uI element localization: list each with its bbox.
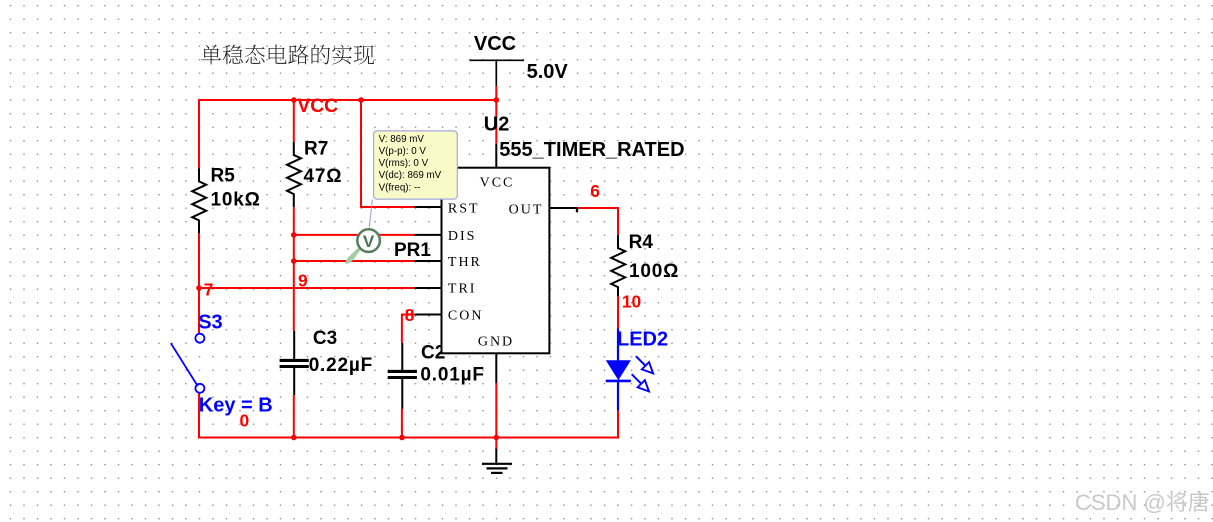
pin stub DIS [415,234,442,236]
svg-text:U2: U2 [484,113,510,135]
svg-text:8: 8 [405,305,415,325]
wire node 6 down to R4 [617,207,619,235]
wire RST branch horizontal to RST pin [361,206,415,208]
svg-text:VCC: VCC [474,33,516,55]
power symbol VCC 5.0V [470,33,524,100]
wire R7 top lead from bus [293,100,295,142]
wire bottom bus to ground symbol [495,437,497,450]
svg-text:V: 869 mV: V: 869 mV [379,134,425,145]
junction J4 at (293.8,234.9) [291,232,297,238]
wire node 7 down to switch S3 [198,287,200,334]
pin stub RST [415,206,442,208]
wire node 7 to TRI pin [199,287,415,289]
wire R5 bottom to node 7 [198,233,200,288]
svg-text:V: V [363,232,375,251]
junction J3 at (496.3,100) [494,97,500,103]
svg-text:THR: THR [448,255,482,270]
svg-text:CSDN @: CSDN @ [1075,490,1166,515]
wire RST branch vertical [360,100,362,208]
svg-text:7: 7 [204,280,214,300]
svg-text:DIS: DIS [448,229,477,244]
wire R5 top lead from bus [198,99,200,168]
svg-text:LED2: LED2 [617,329,668,351]
wire R4 bottom node 10 to LED2 [617,296,619,329]
svg-text:VCC: VCC [297,96,338,117]
svg-text:V(freq): --: V(freq): -- [379,182,421,193]
svg-text:0.01µF: 0.01µF [420,364,484,385]
wire switch S3 to bottom bus [198,393,200,439]
svg-text:10kΩ: 10kΩ [211,190,261,211]
wire C3 bottom to bottom bus [293,395,295,439]
junction J1 at (293.8,100) [291,97,297,103]
pin stub TRI [415,287,442,289]
svg-text:R7: R7 [304,138,328,159]
LED LED2 cathode lead [617,381,619,411]
svg-text:VCC: VCC [480,176,515,191]
wire node 8 down to C2 [401,314,403,343]
junction J7 at (293.8,437.5) [291,435,297,441]
svg-text:PR1: PR1 [394,240,431,261]
wire CON pin to node 8 corner [402,314,415,316]
watermark CSDN @将唐 [1075,490,1209,515]
probe PR1 tooltip box [374,131,458,199]
wire OUT pin to node 6 corner [577,207,618,209]
LED LED2 triangle [606,360,631,380]
probe PR1 circle [357,229,380,252]
junction J9 at (496.3,437.5) [494,435,500,441]
pin stub VCC (top) [495,144,497,168]
svg-text:5.0V: 5.0V [527,61,569,83]
junction J8 at (401.9,437.5) [399,435,405,441]
pin stub CON [415,314,442,316]
wire THR pin to node 9 [294,260,415,262]
capacitor C3 [293,331,295,359]
svg-text:S3: S3 [198,312,222,334]
svg-text:9: 9 [298,271,308,291]
svg-text:TRI: TRI [448,282,477,297]
wire top VCC bus [199,99,496,101]
resistor R5 [192,168,206,233]
svg-text:V(p-p): 0 V: V(p-p): 0 V [379,146,427,157]
svg-text:V(rms): 0 V: V(rms): 0 V [379,158,429,169]
pin stub GND (bottom) [495,353,497,383]
LED LED2 light arrow 2 [628,371,652,395]
wire LED2 cathode to bottom bus [617,411,619,439]
switch S3 terminal top [195,334,204,343]
svg-text:GND: GND [478,334,514,349]
ground symbol [482,449,512,473]
resistor R7 [287,142,301,207]
svg-text:0.22µF: 0.22µF [309,355,373,376]
junction J2 at (361,100) [358,97,364,103]
svg-text:R4: R4 [629,232,654,253]
junction J6 at (199,288) [196,285,202,291]
svg-text:OUT: OUT [509,203,544,218]
svg-text:V(dc): 869 mV: V(dc): 869 mV [379,170,442,181]
junction J5 at (293.8,261) [291,258,297,264]
probe PR1 connector line to tooltip [369,200,372,228]
pin stub OUT [549,207,577,209]
wire R7 bottom / node 9 down to C3 [293,207,295,331]
svg-text:Key = B: Key = B [199,395,273,417]
resistor R4 [611,235,625,296]
pin end tick OUT [576,208,578,212]
LED LED2 light arrow 1 [632,353,656,377]
svg-text:R5: R5 [211,166,236,187]
wire bottom ground bus [199,436,618,438]
probe PR1 handle [347,248,361,263]
svg-text:6: 6 [590,181,600,201]
LED LED2 cathode bar [606,380,631,383]
LED LED2 anode lead [617,328,619,360]
title text 单稳态电路的实现 [201,45,374,65]
wire DIS pin to node 9 [294,234,415,236]
capacitor C2 [401,343,403,370]
switch S3 terminal bottom [195,384,204,393]
pin stub THR [415,260,442,262]
svg-text:RST: RST [448,201,480,216]
svg-text:100Ω: 100Ω [629,261,679,282]
wire VCC junction down to U2 VCC pin [495,99,497,144]
switch S3 lever [171,343,198,386]
svg-text:C3: C3 [313,328,337,349]
svg-text:555_TIMER_RATED: 555_TIMER_RATED [499,139,684,161]
tooltip text [379,134,442,193]
svg-text:CON: CON [448,309,484,324]
op-amp/IC U2 555_TIMER_RATED body [442,168,550,354]
svg-text:47Ω: 47Ω [304,166,343,187]
svg-text:10: 10 [622,292,641,312]
wire C2 bottom to bottom bus [401,409,403,439]
wire GND pin to bottom bus [495,383,497,439]
